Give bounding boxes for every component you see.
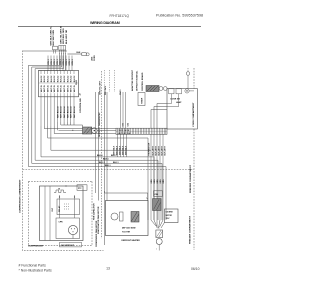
svg-text:WHT-15: WHT-15 [71, 85, 73, 92]
svg-text:BLK-12: BLK-12 [44, 76, 46, 83]
svg-text:TCO HTR: TCO HTR [122, 232, 131, 234]
svg-text:BLK-12: BLK-12 [71, 76, 73, 83]
svg-text:NO DEFROST: NO DEFROST [61, 245, 75, 247]
svg-text:MOTOR: MOTOR [166, 215, 173, 217]
svg-text:BLK-12: BLK-12 [48, 76, 50, 83]
svg-text:WHT-BLK-14: WHT-BLK-14 [63, 106, 66, 118]
svg-text:WHT-BLK-14: WHT-BLK-14 [56, 106, 59, 118]
svg-text:DEF 120V 400W: DEF 120V 400W [122, 227, 136, 230]
svg-text:WHT-BLK-14: WHT-BLK-14 [66, 106, 69, 118]
svg-text:DEFROST BI-METAL: DEFROST BI-METAL [136, 70, 139, 91]
svg-text:BLK-12: BLK-12 [41, 76, 43, 83]
svg-text:ORN: ORN [160, 179, 162, 184]
svg-text:* Non-Illustrated Parts: * Non-Illustrated Parts [19, 269, 52, 273]
svg-text:ICE MKR: ICE MKR [166, 212, 174, 214]
svg-text:FREEZER COMPARTMENT: FREEZER COMPARTMENT [189, 164, 192, 193]
svg-text:FFHT1817LQ: FFHT1817LQ [110, 14, 130, 18]
svg-text:RUN CAPACITOR: RUN CAPACITOR [93, 203, 96, 220]
svg-text:WHT-15: WHT-15 [44, 85, 46, 92]
svg-text:WHT-15: WHT-15 [74, 85, 76, 92]
svg-text:DEFROST THERMOSTAT: DEFROST THERMOSTAT [98, 112, 101, 137]
svg-text:BLK-1: BLK-1 [97, 155, 103, 157]
svg-text:# Functional Parts: # Functional Parts [19, 264, 47, 268]
svg-text:BLK-WHT OR: BLK-WHT OR [66, 29, 68, 44]
svg-text:ORN-1: ORN-1 [69, 58, 71, 65]
svg-text:WHT-15: WHT-15 [48, 85, 50, 92]
svg-text:WHT-BLK: WHT-BLK [117, 145, 119, 155]
svg-text:COMPRESSOR: COMPRESSOR [28, 245, 44, 247]
svg-text:Publication No. 5995537598: Publication No. 5995537598 [156, 14, 203, 18]
svg-text:BLK-12: BLK-12 [64, 76, 66, 83]
svg-text:ORN: ORN [154, 179, 156, 184]
svg-text:CN6: CN6 [155, 194, 159, 196]
svg-text:A B C D E F G H: A B C D E F G H [118, 132, 132, 135]
svg-text:BLK-1: BLK-1 [103, 159, 109, 161]
svg-text:CN2: CN2 [122, 123, 124, 127]
svg-text:BLK WHT-ORN: BLK WHT-ORN [53, 30, 55, 46]
svg-text:BLK-1: BLK-1 [111, 155, 117, 157]
svg-text:TIMER: TIMER [142, 97, 144, 104]
svg-text:WHT-BLK-14: WHT-BLK-14 [60, 106, 63, 118]
svg-text:WHT-15: WHT-15 [57, 85, 59, 92]
svg-text:ORN-1: ORN-1 [48, 58, 50, 65]
svg-text:GRN-YEL WHT: GRN-YEL WHT [100, 80, 102, 95]
svg-text:WIRING DIAGRAM: WIRING DIAGRAM [90, 21, 120, 25]
svg-text:CPR: CPR [59, 222, 64, 224]
svg-text:WHT BLK GRN: WHT BLK GRN [63, 28, 65, 44]
svg-text:WHT-BLK: WHT-BLK [123, 145, 125, 155]
svg-text:CN3: CN3 [127, 123, 129, 127]
svg-text:WHT-15: WHT-15 [54, 85, 56, 92]
svg-text:FOOD COMPARTMENT: FOOD COMPARTMENT [192, 102, 195, 127]
svg-text:BLK: BLK [77, 52, 82, 54]
svg-text:CORD: CORD [94, 55, 96, 61]
svg-text:WHT-BLK: WHT-BLK [120, 145, 122, 155]
svg-text:DEFROST HEATER: DEFROST HEATER [122, 239, 141, 242]
svg-text:ORN: ORN [157, 179, 159, 184]
svg-text:BLK-12: BLK-12 [57, 76, 59, 83]
svg-text:CONTROL BD: CONTROL BD [80, 98, 82, 113]
svg-text:ORN: ORN [151, 179, 153, 184]
svg-text:*: * [156, 249, 157, 252]
svg-text:BLK-WHT: BLK-WHT [165, 145, 167, 155]
svg-text:THERMISTOR: THERMISTOR [148, 142, 150, 156]
svg-text:13: 13 [106, 267, 110, 271]
svg-text:ORN-1: ORN-1 [54, 58, 56, 65]
svg-text:WHT-BLK: WHT-BLK [126, 145, 128, 155]
svg-text:WHT-BLK GRN-YL: WHT-BLK GRN-YL [51, 26, 53, 46]
svg-text:WHT-BLK-14: WHT-BLK-14 [73, 106, 76, 118]
svg-text:BLK-12: BLK-12 [51, 76, 53, 83]
svg-text:FREEZER COMPARTMENT: FREEZER COMPARTMENT [189, 215, 192, 244]
svg-text:ORN: ORN [163, 179, 165, 184]
svg-text:EVAPORATOR FAN MOTOR: EVAPORATOR FAN MOTOR [97, 206, 100, 234]
svg-text:WHT-15: WHT-15 [61, 85, 63, 92]
svg-text:BLK-1: BLK-1 [105, 165, 111, 167]
svg-text:WHT-15: WHT-15 [64, 85, 66, 92]
svg-text:LAMP: LAMP [176, 101, 182, 104]
svg-text:COMPRESSOR COMPARTMENT: COMPRESSOR COMPARTMENT [19, 179, 22, 213]
svg-text:BLK-1: BLK-1 [99, 162, 105, 164]
svg-text:BLK-1: BLK-1 [113, 162, 119, 164]
svg-text:ORN-1: ORN-1 [57, 58, 59, 65]
svg-text:WHT-15: WHT-15 [67, 85, 69, 92]
svg-text:GRN-YEL WHT-B: GRN-YEL WHT-B [61, 26, 63, 44]
svg-text:ORN-1: ORN-1 [51, 58, 53, 65]
svg-text:WHT-15: WHT-15 [41, 85, 43, 92]
svg-text:06/10: 06/10 [191, 267, 200, 271]
svg-text:J2: J2 [80, 93, 82, 95]
svg-text:ORN-1: ORN-1 [72, 58, 74, 65]
svg-text:WHT-BLK-14: WHT-BLK-14 [70, 106, 73, 118]
svg-text:ORN-1: ORN-1 [63, 58, 65, 65]
svg-text:WHT-BLK: WHT-BLK [105, 85, 107, 95]
svg-text:WHT-BLK: WHT-BLK [114, 145, 116, 155]
svg-text:BLK-12: BLK-12 [61, 76, 63, 83]
svg-text:CN12: CN12 [76, 80, 78, 85]
svg-text:WHT-15: WHT-15 [51, 85, 53, 92]
svg-text:C N 1 2 3 4 5 6: C N 1 2 3 4 5 6 [118, 129, 129, 132]
svg-text:ADAPTIVE DEFROST: ADAPTIVE DEFROST [131, 69, 134, 91]
svg-text:BLK-12: BLK-12 [54, 76, 56, 83]
svg-text:ORN-1: ORN-1 [66, 58, 68, 65]
svg-text:BLK-12: BLK-12 [67, 76, 69, 83]
svg-text:CONTROL BOARD: CONTROL BOARD [141, 72, 144, 91]
